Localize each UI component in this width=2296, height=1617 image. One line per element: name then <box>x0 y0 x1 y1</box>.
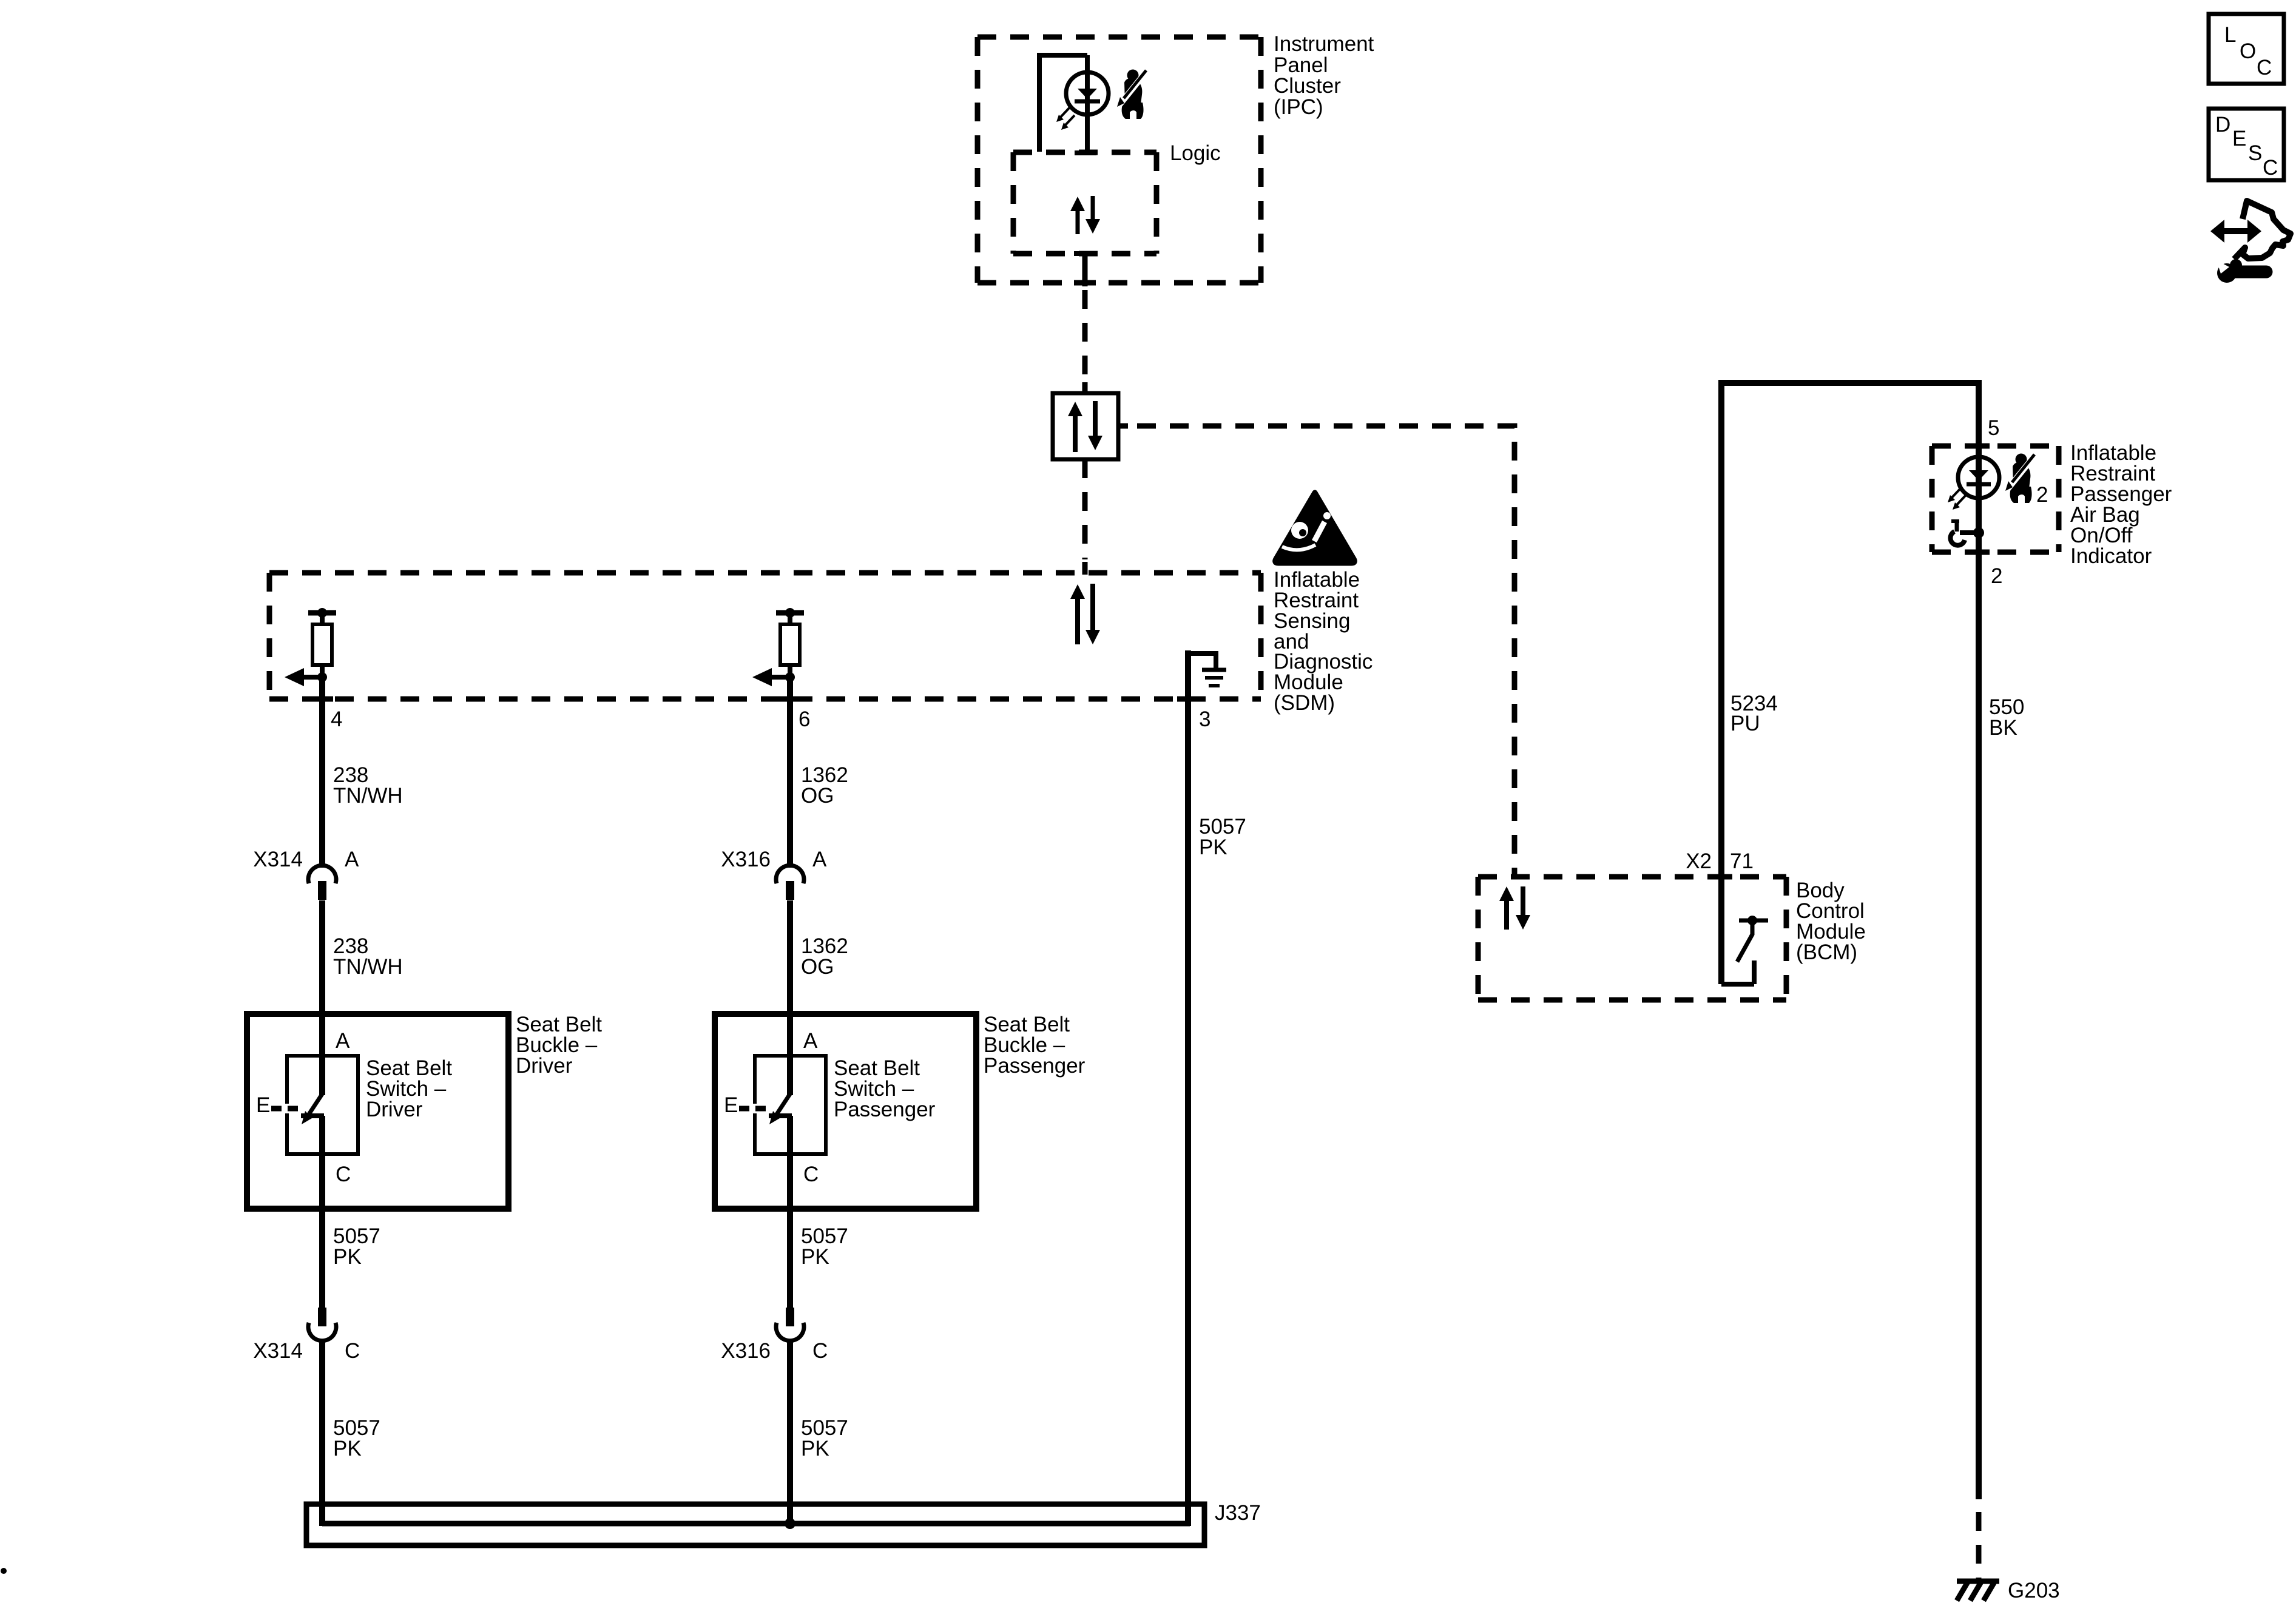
svg-text:Indicator: Indicator <box>2070 544 2152 568</box>
label 550 BK <box>1989 695 2024 740</box>
wire 5057 PK driver lower <box>319 1342 325 1526</box>
svg-text:A: A <box>803 1029 818 1053</box>
tick indicator top edge pin 5 <box>1968 444 1990 449</box>
svg-text:4: 4 <box>331 707 342 731</box>
serial data arrows in BCM <box>1499 886 1530 930</box>
label 238 TN/WH upper <box>333 763 403 808</box>
svg-text:Cluster: Cluster <box>1274 74 1341 98</box>
label Seat Belt Buckle Passenger <box>984 1013 1086 1078</box>
svg-text:Driver: Driver <box>516 1054 573 1078</box>
svg-text:2: 2 <box>2036 483 2048 507</box>
svg-text:A: A <box>812 848 827 871</box>
wire 5057 PK from SDM pin 3 <box>1185 650 1191 1526</box>
svg-text:3: 3 <box>1199 707 1210 731</box>
wire 5057 PK passenger lower <box>787 1342 793 1526</box>
label 5057 PK driver upper <box>333 1224 380 1269</box>
label 1362 OG lower <box>801 934 848 979</box>
inline harness connector symbol <box>1053 382 1128 470</box>
svg-text:6: 6 <box>799 707 810 731</box>
svg-text:C: C <box>803 1163 819 1186</box>
svg-text:C: C <box>2263 156 2278 180</box>
svg-text:PK: PK <box>1199 836 1227 859</box>
serial data arrows in SDM <box>1070 584 1100 644</box>
LED light emission arrows (IPC) <box>1056 107 1075 130</box>
wire 5057 PK passenger upper <box>787 1116 793 1309</box>
label X314 C lower <box>253 1339 360 1363</box>
svg-text:PU: PU <box>1730 712 1760 735</box>
label Seat Belt Buckle Driver <box>516 1013 602 1078</box>
LED light emission arrows (indicator) <box>1948 488 1966 510</box>
label 1362 OG upper <box>801 763 848 808</box>
wire through indicator <box>1976 446 1982 552</box>
tick indicator bottom edge pin 2 <box>1968 550 1990 555</box>
svg-text:J337: J337 <box>1215 1501 1261 1525</box>
connector X314 terminal C <box>308 1308 336 1341</box>
svg-text:X316: X316 <box>721 848 771 871</box>
svg-text:G203: G203 <box>2008 1579 2060 1602</box>
svg-text:L: L <box>2224 23 2236 47</box>
label Instrument Panel Cluster (IPC) <box>1274 32 1374 119</box>
label 238 TN/WH lower <box>333 934 403 979</box>
connector X316 terminal A <box>776 865 804 900</box>
module box BCM (dashed) <box>1478 877 1786 1000</box>
tick SDM bottom edge pin 4 <box>311 697 333 702</box>
svg-text:Instrument: Instrument <box>1274 32 1374 56</box>
wire IPC to inline connector (dashed) <box>1082 290 1088 388</box>
label Body Control Module (BCM) <box>1796 879 1866 964</box>
svg-text:D: D <box>2215 113 2230 137</box>
label X314 A upper <box>253 848 359 871</box>
svg-text:E: E <box>2232 127 2246 150</box>
tick SDM bottom edge pin 3 <box>1177 697 1199 702</box>
svg-text:PK: PK <box>801 1437 829 1460</box>
seat belt switch driver inner box <box>287 1056 358 1154</box>
label 5057 PK driver lower <box>333 1416 380 1460</box>
svg-text:OG: OG <box>801 955 834 979</box>
svg-text:Logic: Logic <box>1170 141 1221 165</box>
svg-text:A: A <box>336 1029 350 1053</box>
switch lever passenger <box>769 1094 792 1124</box>
svg-text:E: E <box>724 1093 738 1117</box>
label Inflatable Restraint Passenger Air Bag On/Off Indicator <box>2070 441 2172 568</box>
warning triangle air bag icon <box>1275 493 1355 563</box>
wire logic to IPC bottom edge <box>1082 254 1088 286</box>
signal arrow driver in SDM <box>285 668 322 686</box>
LED L2 air bag on/off indicator <box>1958 457 1999 498</box>
junction node driver in SDM <box>317 672 327 682</box>
icon removal direction arrow and wrench <box>2210 201 2291 283</box>
tick BCM top edge pin 71 <box>1710 874 1732 880</box>
svg-text:C: C <box>2257 56 2272 79</box>
label Seat Belt Switch Driver <box>366 1056 452 1121</box>
svg-text:X316: X316 <box>721 1339 771 1363</box>
svg-text:C: C <box>345 1339 360 1363</box>
seat belt switch passenger inner box <box>755 1056 826 1154</box>
svg-text:X314: X314 <box>253 848 303 871</box>
signal arrow passenger in SDM <box>752 668 790 686</box>
ground G203 <box>1957 1580 1999 1601</box>
junction node indicator <box>1973 527 1984 538</box>
legend box DESC <box>2209 109 2284 180</box>
legend box LOC <box>2209 14 2284 84</box>
wire 238 TN/WH lower segment <box>319 900 325 1095</box>
label 5057 PK pin3 wire <box>1199 815 1246 859</box>
stray dot left margin <box>1 1568 7 1574</box>
serial data arrows in logic box <box>1070 196 1100 234</box>
svg-text:PK: PK <box>333 1437 362 1460</box>
svg-text:PK: PK <box>801 1245 829 1269</box>
LED L1 seat belt indicator (IPC) <box>1066 72 1109 115</box>
label X316 C lower <box>721 1339 828 1363</box>
svg-text:(SDM): (SDM) <box>1274 691 1335 715</box>
lamp driver outline in IPC <box>1039 55 1087 152</box>
terminal tick logic top <box>1075 150 1096 155</box>
wire 5057 PK driver upper <box>319 1116 325 1309</box>
svg-text:Driver: Driver <box>366 1098 423 1121</box>
module box IPC (dashed) <box>977 37 1261 283</box>
svg-text:C: C <box>336 1163 351 1186</box>
label Inflatable Restraint Sensing and Diagnostic Module (SDM) <box>1274 568 1373 715</box>
resistor R driver side in SDM <box>308 608 336 680</box>
splice pack J337 <box>306 1504 1204 1545</box>
terminal tick logic bottom <box>1074 251 1096 256</box>
seat belt buckle passenger box <box>715 1014 976 1209</box>
svg-text:(IPC): (IPC) <box>1274 95 1323 119</box>
ground symbol inside SDM <box>1188 653 1226 686</box>
wire 5234 PU from BCM pin 71 to indicator pin 5 <box>1721 383 1979 984</box>
svg-text:2: 2 <box>1991 564 2002 588</box>
logic box (dashed) <box>1013 152 1156 254</box>
svg-text:BK: BK <box>1989 716 2017 740</box>
module box indicator (dashed) <box>1932 446 2059 552</box>
switch hook in indicator <box>1950 521 1979 545</box>
wire 238 TN/WH upper segment <box>319 677 325 868</box>
label Seat Belt Switch Passenger <box>834 1056 936 1121</box>
wire 1362 OG upper segment <box>787 677 793 868</box>
stub at SDM top edge <box>1082 562 1088 575</box>
svg-text:5: 5 <box>1988 416 1999 440</box>
svg-text:A: A <box>345 848 359 871</box>
svg-text:C: C <box>812 1339 828 1363</box>
seat belt buckle driver box <box>247 1014 508 1209</box>
svg-text:71: 71 <box>1730 849 1754 873</box>
resistor R passenger side in SDM <box>776 608 804 680</box>
wire connector to BCM (dashed) <box>1137 426 1514 877</box>
svg-text:X2: X2 <box>1686 849 1712 873</box>
wire to ground G203 (dashed) <box>1976 1512 1982 1580</box>
icon fasten seat belt (IPC) <box>1117 70 1146 120</box>
svg-text:O: O <box>2240 39 2256 63</box>
module box SDM (dashed) <box>269 573 1261 699</box>
switch lever driver <box>301 1094 324 1124</box>
label X316 A upper <box>721 848 827 871</box>
svg-text:TN/WH: TN/WH <box>333 784 403 808</box>
wire connector to SDM (dashed) <box>1082 459 1088 559</box>
label 5057 PK passenger upper <box>801 1224 848 1269</box>
tick IPC bottom edge crossing <box>1074 280 1096 286</box>
switch in BCM <box>1721 916 1768 984</box>
E actuator label passenger <box>724 1093 766 1117</box>
junction node passenger in SDM <box>785 672 795 682</box>
svg-text:Passenger: Passenger <box>834 1098 936 1121</box>
svg-text:Passenger: Passenger <box>984 1054 1086 1078</box>
svg-text:X314: X314 <box>253 1339 303 1363</box>
svg-text:PK: PK <box>333 1245 362 1269</box>
connector X314 terminal A <box>308 865 336 900</box>
serial data arrows in connector <box>1068 401 1102 452</box>
svg-text:TN/WH: TN/WH <box>333 955 403 979</box>
svg-text:S: S <box>2248 141 2262 165</box>
wire 550 BK <box>1976 552 1982 1499</box>
label 5234 PU <box>1730 692 1778 735</box>
svg-text:OG: OG <box>801 784 834 808</box>
wire 1362 OG lower segment <box>787 900 793 1095</box>
label 5057 PK passenger lower <box>801 1416 848 1460</box>
E actuator label driver <box>256 1093 299 1117</box>
svg-text:E: E <box>256 1093 270 1117</box>
svg-text:(BCM): (BCM) <box>1796 940 1857 964</box>
connector X316 terminal C <box>776 1308 804 1341</box>
wire through IPC LED <box>1085 55 1090 153</box>
tick SDM bottom edge pin 6 <box>779 697 801 702</box>
icon fasten seat belt (indicator) <box>2005 454 2034 504</box>
